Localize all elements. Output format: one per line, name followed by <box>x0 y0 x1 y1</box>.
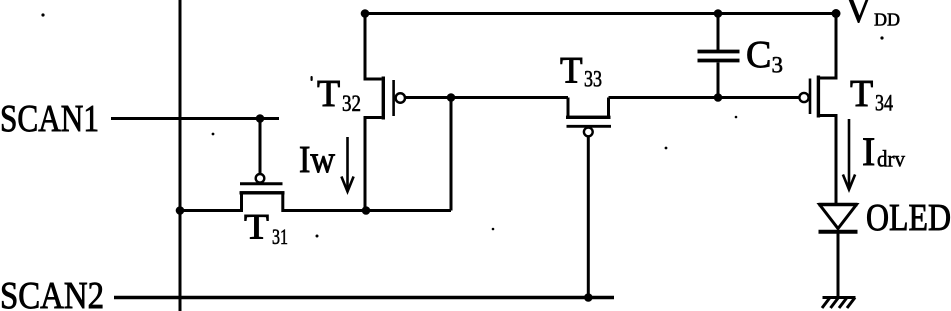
transistor T33 gate bar <box>567 125 612 128</box>
node junction dot top rail at C3 <box>714 9 723 18</box>
current arrow Idrv <box>843 119 855 190</box>
svg-text:SCAN2: SCAN2 <box>0 275 104 311</box>
transistor T33 gate bubble <box>584 127 593 136</box>
wire SCAN1 to T31 gate <box>259 119 262 175</box>
transistor T32 drain wire <box>365 14 382 80</box>
ground symbol hatch strokes <box>822 298 855 309</box>
svg-text:DD: DD <box>874 10 900 30</box>
wire left vertical data line <box>179 0 182 311</box>
current arrow Iw <box>341 137 353 192</box>
diode OLED cathode bar <box>819 230 858 234</box>
wire SCAN1 horizontal line <box>111 117 279 120</box>
wire VDD top rail <box>365 12 836 15</box>
svg-text:T: T <box>560 51 583 92</box>
wire gate net T33 to T34 <box>609 96 800 99</box>
svg-text:3: 3 <box>772 53 784 78</box>
wire gate net T32 to T33 <box>405 96 568 99</box>
svg-text:T: T <box>244 207 269 247</box>
wire gate-node feedback vertical <box>450 98 453 211</box>
transistor T34 gate bubble <box>799 93 808 102</box>
transistor T31 gate bar <box>240 182 283 185</box>
svg-text:V: V <box>846 0 873 31</box>
diode OLED anode triangle <box>820 205 857 229</box>
node junction dot left vertical line to T31 <box>176 206 185 215</box>
transistor T34 source wire <box>820 116 836 205</box>
capacitor C3 top plate <box>698 50 740 54</box>
svg-text:33: 33 <box>584 67 602 92</box>
node junction dot on SCAN1 at T31 gate <box>256 114 265 123</box>
transistor T32 gate bubble <box>396 93 405 102</box>
transistor T31 gate bubble <box>256 174 265 183</box>
svg-text:32: 32 <box>342 91 361 116</box>
transistor T33 channel bar <box>566 116 611 119</box>
ground symbol bar <box>823 296 856 299</box>
transistor T31 channel and source/drain wire <box>180 193 451 211</box>
svg-text:drv: drv <box>877 147 905 173</box>
node junction dot top rail at T34 VDD corner <box>832 9 841 18</box>
transistor T34 drain wire <box>820 14 836 79</box>
svg-text:T: T <box>317 73 340 115</box>
transistor T31 channel bar <box>240 191 285 194</box>
transistor T32 gate bar <box>392 80 395 116</box>
svg-text:T: T <box>850 73 873 115</box>
svg-text:Iw: Iw <box>299 139 335 181</box>
node junction dot top rail at T32 <box>361 9 370 18</box>
node junction dot T32 source on row wire <box>362 206 371 215</box>
node junction dot gate line feedback <box>447 93 456 102</box>
svg-text:C: C <box>746 34 771 76</box>
transistor T32 source wire <box>365 118 382 211</box>
svg-text:OLED: OLED <box>866 197 951 239</box>
node junction dot gate line at C3 <box>714 93 723 102</box>
wire SCAN2 horizontal line <box>114 296 614 299</box>
svg-text:31: 31 <box>272 224 288 249</box>
node junction dot SCAN2 at T33 gate wire <box>584 293 593 302</box>
transistor T34 gate bar <box>809 79 812 115</box>
svg-text:34: 34 <box>875 91 893 116</box>
capacitor C3 bottom plate <box>698 59 740 63</box>
transistor T34 channel bar <box>817 76 820 118</box>
transistor T33 channel steps <box>568 98 609 118</box>
svg-text:SCAN1: SCAN1 <box>0 98 99 140</box>
transistor T32 channel bar <box>382 77 385 120</box>
diode OLED top bar <box>819 203 858 206</box>
capacitor C3 bottom lead <box>717 63 720 98</box>
speck noise dots <box>41 13 883 237</box>
wire OLED cathode to ground <box>837 232 840 298</box>
wire T33 gate to SCAN2 <box>587 136 590 297</box>
capacitor C3 top lead <box>717 14 720 51</box>
svg-text:I: I <box>862 129 875 174</box>
